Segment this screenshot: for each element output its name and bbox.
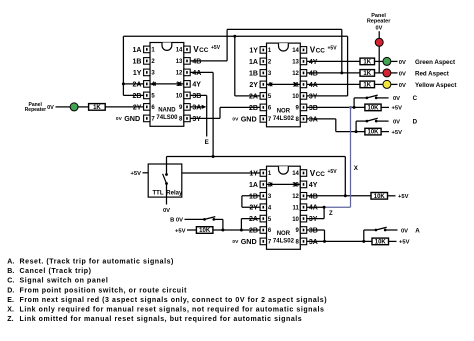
svg-text:10K: 10K <box>199 228 211 234</box>
svg-text:B.: B. <box>7 268 14 275</box>
svg-text:1K: 1K <box>363 71 371 77</box>
svg-text:4Y: 4Y <box>309 182 318 189</box>
svg-text:3B: 3B <box>309 228 318 235</box>
svg-text:3A: 3A <box>309 116 318 123</box>
svg-text:10K: 10K <box>374 194 386 200</box>
svg-text:B 0V: B 0V <box>170 218 183 224</box>
svg-text:0V: 0V <box>376 26 383 32</box>
svg-text:14: 14 <box>292 171 299 177</box>
svg-text:CC: CC <box>316 48 326 55</box>
svg-text:NOR: NOR <box>277 109 291 115</box>
svg-text:+5V: +5V <box>131 171 142 177</box>
svg-text:4B: 4B <box>309 70 318 77</box>
svg-text:74LS00: 74LS00 <box>156 115 178 121</box>
svg-text:From next signal red (3 aspect: From next signal red (3 aspect signals o… <box>20 297 327 304</box>
svg-text:10K: 10K <box>375 240 387 246</box>
svg-text:1K: 1K <box>363 60 371 66</box>
svg-text:4B: 4B <box>309 193 318 200</box>
svg-text:E: E <box>205 139 209 146</box>
svg-text:10: 10 <box>176 94 183 100</box>
svg-text:14: 14 <box>176 48 183 54</box>
svg-text:From point position switch, or: From point position switch, or route cir… <box>20 287 188 294</box>
svg-text:1A: 1A <box>249 182 258 189</box>
svg-text:3Y: 3Y <box>192 116 201 123</box>
svg-text:+5V: +5V <box>175 228 186 234</box>
svg-text:4Y: 4Y <box>192 81 201 88</box>
svg-text:2A: 2A <box>249 93 258 100</box>
svg-text:2A: 2A <box>249 216 258 223</box>
svg-text:Cancel (Track trip): Cancel (Track trip) <box>20 268 92 275</box>
svg-text:0V: 0V <box>399 60 406 66</box>
svg-text:+5V: +5V <box>399 240 410 246</box>
svg-text:NOR: NOR <box>277 231 291 237</box>
svg-text:Repeater: Repeater <box>367 18 391 24</box>
svg-text:2Y: 2Y <box>133 104 142 111</box>
svg-text:Reset. (Track trip for automat: Reset. (Track trip for automatic signals… <box>20 259 174 266</box>
svg-text:1A: 1A <box>249 59 258 66</box>
svg-text:GND: GND <box>241 114 257 123</box>
svg-text:2Y: 2Y <box>249 82 258 89</box>
svg-text:10: 10 <box>292 94 299 100</box>
svg-text:A: A <box>415 227 420 234</box>
svg-text:C: C <box>413 95 418 102</box>
svg-text:10: 10 <box>292 217 299 223</box>
svg-text:CC: CC <box>199 47 209 54</box>
svg-text:1B: 1B <box>249 193 258 200</box>
svg-text:74LS02: 74LS02 <box>273 239 295 245</box>
svg-text:+5V: +5V <box>392 106 403 112</box>
svg-text:13: 13 <box>176 59 183 65</box>
svg-text:0V: 0V <box>232 117 239 123</box>
svg-text:0V: 0V <box>47 105 54 111</box>
svg-text:0V: 0V <box>401 228 408 234</box>
svg-text:12: 12 <box>292 194 299 200</box>
svg-text:0V: 0V <box>399 83 406 89</box>
svg-text:1K: 1K <box>363 83 371 89</box>
svg-text:A.: A. <box>7 259 14 266</box>
svg-text:E.: E. <box>7 297 14 304</box>
svg-text:0V: 0V <box>232 239 239 245</box>
svg-text:3Y: 3Y <box>309 93 318 100</box>
svg-text:GND: GND <box>124 114 140 123</box>
svg-text:Signal switch on panel: Signal switch on panel <box>20 278 108 285</box>
svg-text:1Y: 1Y <box>249 171 258 178</box>
svg-text:1B: 1B <box>132 58 141 65</box>
svg-text:3Y: 3Y <box>309 216 318 223</box>
svg-text:TTL: TTL <box>153 190 164 196</box>
svg-text:1Y: 1Y <box>133 70 142 77</box>
svg-text:14: 14 <box>292 48 299 54</box>
svg-text:Link omitted for manual reset: Link omitted for manual reset signals, b… <box>20 316 302 323</box>
svg-text:12: 12 <box>292 71 299 77</box>
svg-text:4A: 4A <box>192 70 201 77</box>
svg-text:10K: 10K <box>367 130 379 136</box>
svg-text:0V: 0V <box>393 96 400 102</box>
svg-text:1B: 1B <box>249 70 258 77</box>
svg-text:D.: D. <box>7 287 14 294</box>
svg-text:4A: 4A <box>309 205 318 212</box>
svg-text:+5V: +5V <box>398 194 409 200</box>
svg-text:4A: 4A <box>309 82 318 89</box>
svg-text:C.: C. <box>7 278 14 285</box>
svg-text:0V: 0V <box>399 72 406 78</box>
svg-text:12: 12 <box>176 71 183 77</box>
svg-text:Link only required for manual: Link only required for manual reset sign… <box>20 307 324 314</box>
svg-text:GND: GND <box>241 237 257 246</box>
svg-text:+5V: +5V <box>328 46 338 52</box>
svg-text:4Y: 4Y <box>309 59 318 66</box>
svg-text:+5V: +5V <box>328 169 338 175</box>
svg-text:3A: 3A <box>309 239 318 246</box>
svg-text:Green Aspect: Green Aspect <box>415 59 455 66</box>
svg-text:0V: 0V <box>393 119 400 125</box>
svg-text:3B: 3B <box>192 93 201 100</box>
svg-text:D: D <box>413 118 418 125</box>
svg-text:0V: 0V <box>116 116 123 122</box>
svg-text:NAND: NAND <box>158 108 176 114</box>
svg-text:CC: CC <box>316 171 326 178</box>
svg-text:Red Aspect: Red Aspect <box>415 71 449 78</box>
svg-text:3B: 3B <box>309 105 318 112</box>
svg-text:2Y: 2Y <box>249 205 258 212</box>
svg-text:4B: 4B <box>192 58 201 65</box>
svg-text:Relay: Relay <box>166 190 183 196</box>
svg-text:Repeater: Repeater <box>25 107 46 113</box>
svg-text:X.: X. <box>7 307 14 314</box>
svg-text:Z.: Z. <box>7 316 13 323</box>
svg-text:1A: 1A <box>132 47 141 54</box>
svg-text:Z: Z <box>329 211 333 217</box>
svg-text:74LS02: 74LS02 <box>273 116 295 122</box>
svg-text:2A: 2A <box>132 81 141 88</box>
svg-text:Yellow Aspect: Yellow Aspect <box>415 82 456 89</box>
svg-text:2B: 2B <box>249 228 258 235</box>
svg-text:13: 13 <box>292 60 299 66</box>
svg-text:0V: 0V <box>163 208 170 214</box>
svg-text:2B: 2B <box>132 93 141 100</box>
svg-text:+5V: +5V <box>392 130 403 136</box>
svg-text:11: 11 <box>293 205 300 211</box>
svg-text:10K: 10K <box>367 106 379 112</box>
svg-text:1Y: 1Y <box>249 47 258 54</box>
svg-text:2B: 2B <box>249 105 258 112</box>
svg-text:+5V: +5V <box>211 45 221 51</box>
svg-text:1K: 1K <box>93 105 101 111</box>
svg-text:3A: 3A <box>192 104 201 111</box>
